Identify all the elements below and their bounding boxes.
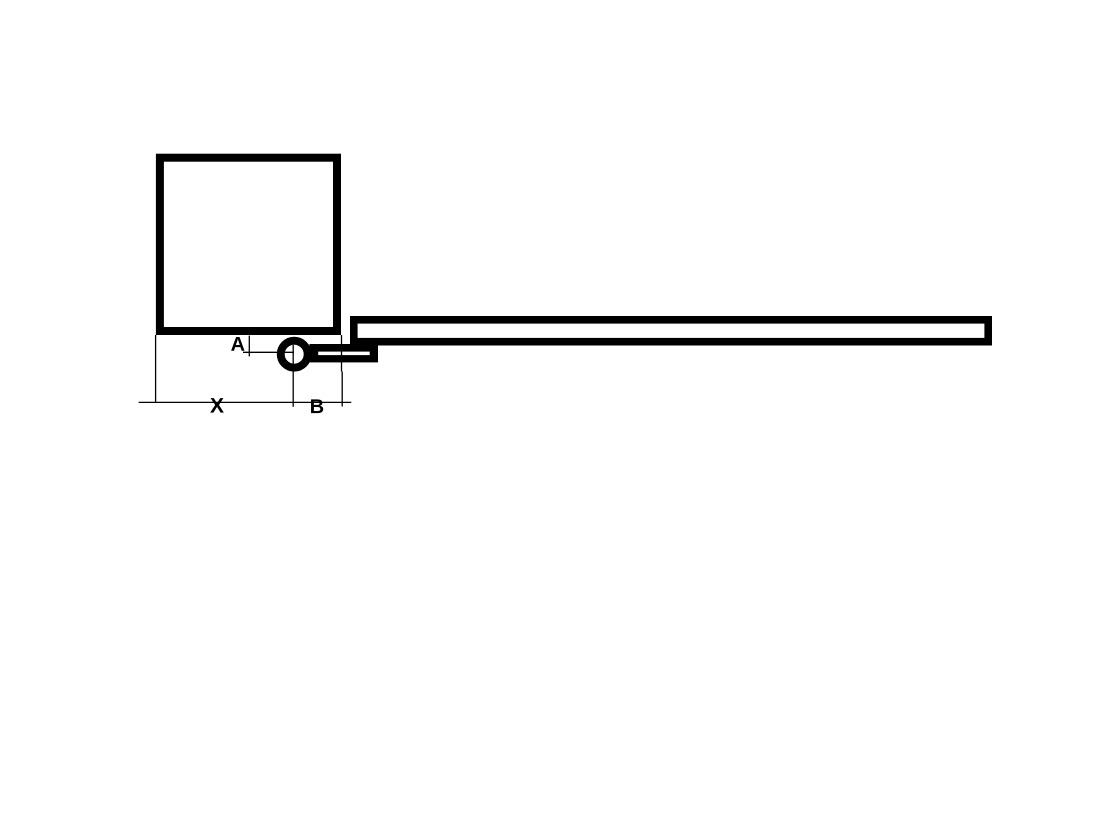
label X — [210, 398, 224, 412]
dimension A tick vertical — [248, 336, 250, 357]
dimension line right vertical lower (B right tick) — [341, 372, 343, 407]
gate post (square) — [160, 158, 337, 331]
gate bar (long rectangle) — [354, 320, 988, 342]
dimension X/B horizontal line — [139, 401, 352, 403]
dimension line right vertical upper (B right extension) — [341, 335, 343, 372]
dimension A horizontal line — [243, 351, 294, 353]
pivot circle — [281, 341, 308, 368]
label A — [231, 337, 244, 351]
hinge arm (flag with slot) — [310, 344, 379, 362]
dimension line left vertical (X left extension) — [155, 335, 157, 403]
pivot centerline vertical — [292, 345, 294, 407]
label B — [311, 399, 323, 413]
